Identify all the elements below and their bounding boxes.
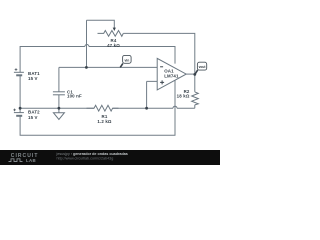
node flag vout — [195, 62, 207, 74]
wire supply rail: battery top up and across to op-amp V+ — [20, 47, 175, 73]
wire inverting input — [59, 66, 157, 68]
svg-text:47 kΩ: 47 kΩ — [107, 43, 120, 48]
wire between BAT1 and BAT2 — [19, 75, 21, 112]
svg-text:LM741: LM741 — [164, 74, 179, 79]
svg-text:vin: vin — [124, 57, 129, 62]
svg-text:http://www.circuitlab.com/c/2a: http://www.circuitlab.com/c/2ab43g — [57, 156, 114, 160]
node dot noninverting tap — [145, 107, 148, 110]
wire hop bump at (174.5,107.7) — [173, 106, 177, 108]
wire op-amp output — [186, 73, 195, 75]
node flag vin — [120, 55, 131, 67]
resistor R4 (potentiometer) — [98, 31, 124, 37]
potentiometer R4 wiper arrow — [113, 28, 116, 32]
node dot feedback/inverting — [85, 66, 88, 69]
wire BAT2 to bottom rail to op-amp V- — [20, 80, 175, 135]
wire output node down to R2 and R2 to mid rail — [194, 74, 196, 108]
svg-text:1.2 kΩ: 1.2 kΩ — [97, 119, 112, 124]
svg-text:vout: vout — [199, 64, 206, 69]
component labels — [28, 38, 190, 124]
battery BAT2 — [13, 109, 24, 116]
svg-text:LAB: LAB — [26, 158, 36, 163]
op-amp OA1 — [157, 58, 186, 90]
wire feedback vertical — [86, 20, 88, 67]
wire noninverting input — [147, 81, 158, 108]
node dot battery mid tap — [19, 107, 22, 110]
svg-text:15 V: 15 V — [28, 76, 38, 81]
wire C1 branch — [58, 67, 60, 108]
svg-text:18 kΩ: 18 kΩ — [177, 94, 190, 99]
wire R4 right terminal to output node — [123, 33, 195, 74]
resistor R2 — [192, 92, 199, 105]
svg-text:BAT2: BAT2 — [28, 109, 40, 114]
svg-text:jesusjpy › generador de ondas: jesusjpy › generador de ondas cuadradas — [56, 152, 128, 156]
svg-text:15 V: 15 V — [28, 115, 38, 120]
ground — [53, 108, 64, 119]
node dot output — [193, 73, 196, 76]
node dot C1/ground — [58, 107, 61, 110]
wire hop bump at (86,46) — [85, 45, 89, 47]
svg-text:100 nF: 100 nF — [67, 94, 82, 99]
resistor R1 — [87, 105, 119, 111]
battery BAT1 — [14, 68, 24, 75]
capacitor C1 — [53, 92, 65, 95]
junction dots — [19, 66, 197, 110]
footer bar — [0, 150, 220, 165]
wire mid rail (ground rail) — [20, 107, 195, 109]
wire to R4 wiper — [87, 20, 115, 27]
